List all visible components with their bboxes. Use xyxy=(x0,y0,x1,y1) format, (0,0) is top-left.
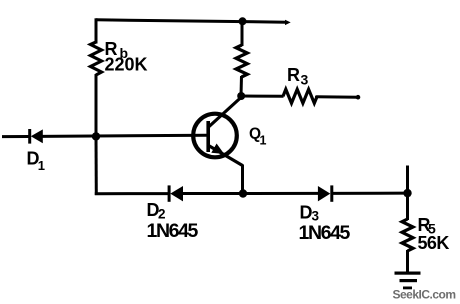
svg-text:1N645: 1N645 xyxy=(299,222,351,244)
resistor Rb xyxy=(91,42,102,75)
wire: Rb top lead xyxy=(95,18,98,43)
node: top junction xyxy=(239,17,247,25)
diode D1 xyxy=(28,129,43,144)
wire: bottom rail middle xyxy=(182,192,319,195)
wire: output stub up xyxy=(406,166,409,194)
wire: Rb bottom lead to base node xyxy=(95,74,98,137)
wire: emitter drop xyxy=(241,165,244,194)
wire: base lead xyxy=(42,135,207,136)
wire: base node down to bottom rail xyxy=(95,136,98,195)
wire: top supply rail xyxy=(96,20,287,22)
svg-text:1: 1 xyxy=(260,133,267,147)
wire: bottom rail right xyxy=(332,192,408,195)
svg-text:3: 3 xyxy=(301,72,309,88)
resistor (unlabeled collector resistor) xyxy=(236,45,247,77)
svg-text:1N645: 1N645 xyxy=(147,220,199,242)
wire: R3 right lead xyxy=(317,95,359,99)
node: collector / R3 junction xyxy=(237,92,245,100)
wire: R5 bottom lead xyxy=(406,250,409,273)
svg-text:R: R xyxy=(287,65,300,85)
transistor Q1 xyxy=(193,97,242,166)
wire: R3 left lead xyxy=(241,95,284,98)
diode D3 xyxy=(318,185,333,201)
resistor R3 xyxy=(283,89,317,103)
top rail right end tick xyxy=(285,20,291,25)
node: emitter junction xyxy=(239,189,247,197)
wire: collector riser upper xyxy=(241,21,244,46)
node: base junction xyxy=(92,132,100,140)
wire: R5 top lead xyxy=(406,193,409,220)
svg-text:1: 1 xyxy=(38,158,45,173)
svg-text:220K: 220K xyxy=(105,55,148,75)
ground xyxy=(395,272,421,290)
diode D2 xyxy=(168,185,183,201)
wire: input lead (left of D1) xyxy=(2,135,29,138)
node: R5 junction xyxy=(403,189,411,197)
svg-text:56K: 56K xyxy=(418,233,450,253)
resistor R5 xyxy=(402,219,413,251)
wire: collector resistor to junction xyxy=(240,76,244,96)
svg-text:SeekIC.com: SeekIC.com xyxy=(393,287,456,301)
wire: bottom rail left xyxy=(95,192,169,195)
